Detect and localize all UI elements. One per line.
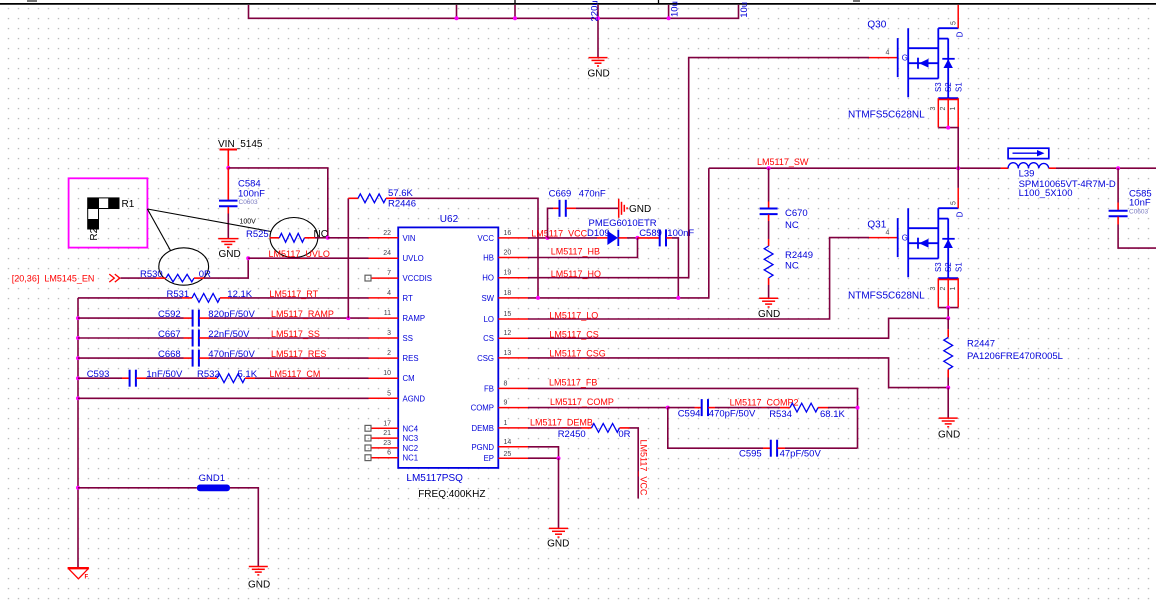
wire VCC to D109 [548,237,598,239]
svg-text:GND: GND [547,538,569,549]
wire AGND row to pin 5 [78,397,369,399]
capacitor C668 470nF/50V [158,349,255,367]
svg-text:7: 7 [387,270,391,277]
svg-text:DEMB: DEMB [471,424,494,433]
node VCC junction [546,236,550,240]
node SW/C670 junction [767,166,771,170]
svg-text:2: 2 [387,350,391,357]
resistor R525 (NC, floating left end) [246,229,328,242]
wire EP pin 25 [528,457,559,459]
wire FB pin 8 [528,388,858,448]
svg-text:D: D [956,31,965,37]
node Q30 source junction [946,126,950,130]
wire Q31 source to CS node [947,308,949,319]
svg-text:NC: NC [785,220,799,231]
wire C669 to GND [576,207,618,209]
wire CM to pin 10 [255,377,369,379]
svg-text:C667: C667 [158,329,181,340]
svg-text:UVLO: UVLO [403,254,424,263]
capacitor C592 820pF/50V [158,309,255,327]
svg-text:6: 6 [387,450,391,457]
node SW/R2446 junction [536,296,540,300]
svg-text:S3: S3 [934,262,943,272]
svg-text:C594: C594 [678,409,701,420]
svg-text:LM5117_SW: LM5117_SW [757,157,809,167]
svg-text:4: 4 [387,290,391,297]
svg-text:LM5117PSQ: LM5117PSQ [406,473,463,484]
svg-text:VIN: VIN [403,234,416,243]
wire R534 to FB vertical [828,407,858,409]
svg-text:LM5117_COMP: LM5117_COMP [550,397,614,407]
node R534/FB junction [856,406,860,410]
wire C670 to R2449 [768,221,770,239]
node UVLO junction [246,256,250,260]
wire C585 bottom to right edge [1118,225,1156,249]
resistor R534 68.1K [769,403,845,420]
junction dots on top bus [455,16,671,20]
resistor R2447 PA1206FRE470R005L [944,318,1063,387]
svg-text:10nF: 10nF [1129,198,1151,209]
svg-text:1: 1 [950,107,957,111]
ground symbol GND (top bus) [589,58,608,66]
svg-text:S1: S1 [954,262,963,272]
sheet border line (top, cut-off sheet above) [0,0,1156,4]
svg-text:C0603: C0603 [1129,209,1149,216]
svg-text:FREQ:400KHZ: FREQ:400KHZ [418,489,485,500]
svg-text:15: 15 [504,311,512,318]
svg-text:R534: R534 [769,409,792,420]
svg-text:R525: R525 [246,229,269,240]
svg-text:[20,36] LM5145_EN: [20,36] LM5145_EN [12,273,95,283]
wire RT to pin 4 [230,297,369,299]
svg-text:NC2: NC2 [403,444,419,453]
svg-text:24: 24 [383,250,391,257]
left pin numbers [383,230,391,457]
net-tie GND1 [197,485,230,492]
svg-text:R2450: R2450 [558,429,586,440]
svg-text:U62: U62 [440,214,459,225]
svg-text:LM5117_COMP2: LM5117_COMP2 [730,398,799,408]
svg-text:PGND: PGND [471,443,494,452]
svg-text:NC4: NC4 [403,424,419,433]
svg-text:Q30: Q30 [867,20,886,31]
svg-text:GND: GND [758,309,780,320]
ground symbol GND (R2447) [939,418,958,427]
left pin names [403,234,432,463]
svg-text:CSG: CSG [477,354,494,363]
svg-text:C593: C593 [87,369,110,380]
svg-text:S1: S1 [954,82,963,92]
wire EN to R530 [121,277,157,279]
wire HO pin 19 to Q30 gate [528,58,869,278]
svg-text:10: 10 [383,370,391,377]
svg-text:100V: 100V [240,219,257,226]
wire SS to pin 3 [209,337,369,339]
svg-text:1: 1 [950,287,957,291]
svg-text:21: 21 [383,430,391,437]
wire PGND pin 14 [528,447,559,458]
resistor R530 0R [140,269,211,282]
ground symbol GND (R2449) [759,298,778,307]
svg-text:S3: S3 [934,82,943,92]
capacitor C593 1nF/50V [87,369,183,387]
svg-text:470nF: 470nF [579,188,606,199]
wire RES to pin 2 [209,357,369,359]
component box R1/R2 (magenta markup box with footprint graphic) [69,178,148,247]
svg-text:4: 4 [886,50,890,57]
svg-text:LM5117_RES: LM5117_RES [271,349,326,359]
ground symbol GND (rotated, C669) [619,199,627,218]
svg-text:NTMFS5C628NL: NTMFS5C628NL [848,110,925,121]
wire CM row [78,377,122,379]
svg-text:CM: CM [403,374,415,383]
svg-text:10u: 10u [739,2,750,18]
svg-text:EP: EP [484,454,494,463]
svg-text:3: 3 [387,330,391,337]
svg-text:C0603: C0603 [239,199,259,206]
wire COMP to C594 [668,407,695,409]
svg-text:20: 20 [504,250,512,257]
wire GND1 to GND [230,488,258,566]
wire DEMB pin 1 [528,427,582,429]
svg-text:19: 19 [504,270,512,277]
svg-text:10u: 10u [670,1,681,17]
wire SW pin 18 [528,168,709,298]
svg-text:GND: GND [629,204,651,215]
svg-text:NC3: NC3 [403,434,419,443]
ground symbol GND (C584) [218,239,238,248]
svg-text:L100_5X100: L100_5X100 [1019,188,1073,199]
resistor R2450 0R [558,424,631,440]
markup circle around R530 [159,248,209,285]
svg-text:PA1206FRE470R005L: PA1206FRE470R005L [967,351,1063,362]
right pin lines [498,238,528,458]
svg-text:17: 17 [383,420,391,427]
svg-text:LM5117_FB: LM5117_FB [549,377,597,387]
svg-text:R2449: R2449 [785,250,813,261]
svg-text:100nF: 100nF [667,228,694,239]
node COMP junction [666,406,670,410]
op-amp U62 LM5117PSQ (controller IC) [398,227,498,468]
wire Q31 drain to SW [957,168,959,188]
wire GND1 row [78,487,197,489]
svg-text:S2: S2 [944,262,953,272]
wire CSG pin 13 [528,358,948,388]
capacitor C670 NC (snubber) [760,168,808,231]
svg-text:AGND: AGND [403,394,426,403]
node RAMP/R2446 junction [346,316,350,320]
wire RAMP row [78,317,184,319]
wire R2449 to GND [768,285,770,298]
svg-text:LO: LO [484,315,494,324]
markup circle around R525 [270,218,318,258]
node Q31 source junction [946,306,950,310]
svg-text:R2446: R2446 [388,199,416,210]
node SW/Q30-Q31 junction [956,166,960,170]
svg-text:COMP: COMP [471,404,494,413]
svg-text:R532: R532 [197,369,220,380]
svg-text:SS: SS [403,334,413,343]
capacitor C594 470pF/50V [678,399,756,420]
svg-text:NC: NC [314,229,328,240]
svg-text:RT: RT [403,294,413,303]
svg-text:RAMP: RAMP [403,314,426,323]
capacitor C669 470nF [549,188,606,216]
svg-text:R530: R530 [140,269,163,280]
svg-text:2: 2 [940,107,947,111]
svg-text:100nF: 100nF [238,188,265,199]
ground symbol GND (PGND/EP) [549,528,568,537]
svg-text:HB: HB [483,254,494,263]
wire VIN pin [328,237,369,239]
svg-text:NC1: NC1 [403,454,419,463]
svg-text:R2447: R2447 [967,339,995,350]
svg-text:18: 18 [504,290,512,297]
resistor R531 12.1K [167,289,253,302]
wire Q30 source to SW [938,128,958,169]
svg-text:GND1: GND1 [199,473,225,484]
right pin numbers [504,230,512,458]
wire LM5117_SW main line [709,167,1001,169]
svg-text:LM5117_RT: LM5117_RT [269,289,318,299]
wire UVLO [248,257,368,259]
svg-text:14: 14 [504,439,512,446]
wire R530 to UVLO net [204,258,248,278]
svg-text:VCCDIS: VCCDIS [403,274,432,283]
svg-text:LM5117_HO: LM5117_HO [551,269,601,279]
svg-text:LM5117_CSG: LM5117_CSG [549,348,605,358]
svg-text:68.1K: 68.1K [820,409,845,420]
svg-text:2: 2 [940,287,947,291]
node PGND/EP junction [557,456,561,460]
svg-text:C595: C595 [739,449,762,460]
svg-text:5: 5 [951,201,958,205]
wire SS row [78,337,184,339]
svg-text:C669: C669 [549,188,572,199]
markup callout line to R525 circle [147,209,271,232]
wire R2446 left lead down to RAMP [347,198,349,318]
capacitor C584 100nF [227,168,229,200]
svg-text:C592: C592 [158,309,181,320]
transistor Q30 NTMFS5C628NL [848,5,965,128]
resistor R2446 57.6K [348,188,416,209]
markup callout line to R530 circle [147,209,170,251]
svg-text:LM5117_HB: LM5117_HB [551,247,600,257]
svg-text:HO: HO [482,274,494,283]
svg-text:D109: D109 [587,228,610,239]
svg-text:C668: C668 [158,349,181,360]
svg-text:G: G [902,54,908,63]
node CSG/R2447 junction [946,386,950,390]
capacitor C589 100nF [638,228,695,246]
svg-text:LM5117_DEMB: LM5117_DEMB [530,418,593,428]
svg-text:23: 23 [383,440,391,447]
wire COMP pin 9 [528,407,668,409]
svg-text:13: 13 [504,350,512,357]
svg-text:47pF/50V: 47pF/50V [780,449,822,460]
svg-text:5: 5 [951,21,958,25]
wire C595 to FB vertical [785,447,858,449]
svg-text:16: 16 [504,230,512,237]
svg-text:GND: GND [938,429,960,440]
svg-text:3: 3 [930,107,937,111]
svg-text:RES: RES [403,354,419,363]
svg-text:G: G [902,234,908,243]
junction dots on AGND bus [76,316,80,490]
wire R2450 to LM5117_VCC stub [630,428,639,499]
wire RAMP to pin 11 [209,317,369,319]
svg-text:1: 1 [504,420,508,427]
right pin names [471,234,495,463]
svg-text:12: 12 [504,330,512,337]
node R525/VIN junction [326,236,330,240]
wire COMP down to C595 [668,408,763,449]
wire D109 to C589/HB node [618,237,627,239]
svg-text:F: F [85,575,89,581]
wire RES row [78,357,184,359]
svg-text:LM5117_CM: LM5117_CM [270,369,321,379]
svg-text:LM5117_CS: LM5117_CS [549,329,598,339]
svg-text:4: 4 [886,230,890,237]
svg-text:LM5117_VCC: LM5117_VCC [531,228,587,238]
svg-text:5.1K: 5.1K [238,369,258,380]
capacitor C595 47pF/50V [739,440,821,460]
svg-text:D: D [956,211,965,217]
svg-text:R2: R2 [89,227,100,240]
node VIN junction [226,166,230,170]
wire RT row [78,297,182,299]
svg-text:GND: GND [248,580,270,591]
wire C593 to R532 [146,377,207,379]
svg-text:S2: S2 [944,82,953,92]
wire left AGND bus [77,298,79,568]
svg-text:11: 11 [384,310,391,317]
wire LO pin 15 to Q31 gate [528,238,869,319]
svg-text:C670: C670 [785,208,808,219]
svg-text:5: 5 [387,390,391,397]
wire C594 to R534 [715,407,780,409]
svg-text:220u: 220u [589,0,600,21]
svg-text:GND: GND [588,69,610,80]
svg-text:LM5117_VCC: LM5117_VCC [639,440,649,496]
wire R2447 to GND [947,388,949,418]
svg-text:25: 25 [504,451,512,458]
svg-text:SW: SW [481,294,494,303]
power ground symbol (triangle, net F) [68,567,89,569]
wire: top GND bus of input capacitors [249,5,739,57]
svg-text:LM5117_SS: LM5117_SS [271,329,320,339]
transistor Q31 NTMFS5C628NL [848,188,965,308]
svg-text:FB: FB [484,384,494,393]
wire HB pin 20 [528,238,638,258]
svg-text:0R: 0R [618,429,630,440]
svg-text:470pF/50V: 470pF/50V [709,409,756,420]
svg-text:VCC: VCC [478,234,495,243]
svg-text:R1: R1 [122,199,135,210]
svg-text:CS: CS [483,334,494,343]
ground symbol GND (bottom left) [249,567,268,575]
no-ERC squares on pins 7,17,21,23,6 [365,275,371,460]
svg-text:R531: R531 [167,289,190,300]
wire VIN_5145 to R525/VIN pin [228,168,327,238]
svg-text:GND: GND [219,249,241,260]
node CS/R2447 junction [946,316,950,320]
wire VCC up to C669 [548,208,554,238]
svg-text:8: 8 [504,380,508,387]
wire Q31 source bottom [938,307,958,309]
svg-text:9: 9 [504,400,508,407]
resistor R532 5.1K [197,369,258,382]
node SW/C585 junction [1116,166,1120,170]
svg-text:22: 22 [383,230,391,237]
left pin lines [369,238,399,458]
svg-text:Q31: Q31 [867,220,886,231]
svg-text:C589: C589 [639,228,662,239]
svg-text:NC: NC [785,260,799,271]
wire VCC pin 16 [528,237,548,239]
svg-text:VIN_5145: VIN_5145 [218,139,263,150]
wire CS pin 12 [528,318,948,338]
wire PGND/EP to GND [558,458,560,528]
svg-text:LM5117_UVLO: LM5117_UVLO [269,249,330,259]
node SW/C589 junction [676,296,680,300]
diode D109 PMEG6010ETR [587,218,657,246]
inductor L39 [1001,148,1116,199]
svg-text:3: 3 [930,287,937,291]
svg-text:LM5117_LO: LM5117_LO [549,310,598,320]
svg-text:NTMFS5C628NL: NTMFS5C628NL [848,291,925,302]
resistor R2449 NC [764,239,813,285]
wire R2446 to SW pin [396,198,538,298]
wire C589 down to SW pin wire [672,238,678,298]
capacitor C585 10nF [1109,168,1152,224]
node HB/C589 junction [636,236,640,240]
capacitor C667 22nF/50V [158,329,250,347]
svg-text:LM5117_RAMP: LM5117_RAMP [271,309,334,319]
